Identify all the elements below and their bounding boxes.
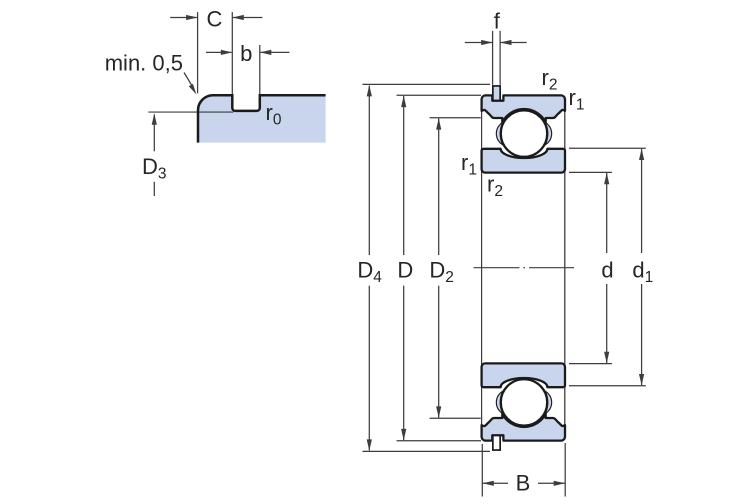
dim D3 arrow (up): [153, 115, 155, 152]
svg-text:D4: D4: [357, 258, 382, 287]
dim d1 extension lines: [569, 147, 646, 149]
snap ring (top, sectioned): [493, 86, 500, 101]
min. 0,5 leader arrow: [184, 73, 193, 87]
dim D4 extension lines: [363, 83, 491, 85]
dim d arrowheads: [604, 173, 609, 185]
D3 level line (thin, through block): [148, 111, 233, 113]
dim C/b shared extension line: [231, 12, 233, 94]
dim D arrowheads: [401, 96, 406, 108]
svg-text:D3: D3: [142, 154, 167, 183]
dim D line: [403, 96, 405, 255]
dim b extension line right: [259, 45, 261, 94]
dim B line segments: [483, 482, 508, 484]
svg-text:d1: d1: [632, 258, 653, 287]
dim b right arrow: [261, 51, 290, 53]
svg-text:D2: D2: [429, 258, 454, 287]
raceway shoulder crescent bottom-left: [496, 391, 502, 414]
dim d1 arrowheads: [639, 149, 644, 161]
ball top: [501, 110, 547, 156]
outer ring bottom section (mirror): [482, 414, 565, 441]
housing block outline (top + left + groove): [198, 95, 326, 142]
dim f arrows: [465, 42, 492, 44]
dim b left arrow: [206, 51, 231, 53]
dim f extension lines: [492, 31, 494, 85]
bearing side silhouette line right: [564, 97, 566, 440]
dim d extension lines: [569, 171, 612, 173]
dim D2 arrowheads: [436, 118, 441, 130]
svg-text:min. 0,5: min. 0,5: [105, 51, 183, 76]
dim f arrowheads: [481, 40, 493, 45]
dim C left arrow: [170, 17, 197, 19]
svg-text:d: d: [601, 258, 613, 283]
dim D extension lines: [397, 94, 482, 96]
svg-text:D: D: [397, 257, 413, 282]
svg-text:f: f: [494, 8, 501, 33]
dim D3 lower segment: [153, 182, 155, 196]
inner ring top section: [482, 149, 565, 173]
svg-text:B: B: [516, 471, 531, 496]
raceway shoulder crescent bottom-right: [545, 391, 551, 414]
snap ring groove (bottom, empty section): [493, 436, 500, 451]
dim C extension line left: [197, 12, 199, 93]
outer ring top section: [482, 95, 565, 122]
dim D2 extension lines: [430, 117, 481, 119]
dim D4 arrowheads: [367, 85, 372, 97]
svg-text:r2: r2: [542, 65, 558, 94]
svg-text:r2: r2: [487, 171, 503, 200]
raceway shoulder crescent top-right: [545, 122, 551, 145]
ball bottom: [501, 379, 547, 425]
dim B arrowheads: [482, 481, 494, 486]
dim d line: [606, 173, 608, 253]
dim B extension lines: [481, 444, 483, 497]
dim C right arrow: [233, 17, 263, 19]
housing block fill: [198, 95, 326, 142]
dim D2 line: [438, 118, 440, 255]
dim d1 line: [641, 149, 643, 253]
raceway shoulder crescent top-left: [496, 122, 502, 145]
inner ring bottom section: [482, 363, 565, 387]
svg-text:b: b: [240, 41, 252, 66]
svg-text:r1: r1: [569, 85, 585, 114]
bearing side silhouette line left: [481, 97, 483, 440]
svg-text:r1: r1: [461, 150, 477, 179]
dim D4 line: [368, 86, 370, 255]
svg-text:C: C: [207, 7, 223, 32]
centerline (axis): [474, 267, 520, 269]
